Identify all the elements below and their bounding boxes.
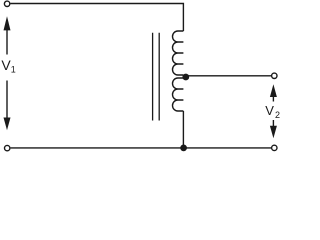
svg-text:1: 1 xyxy=(11,65,16,75)
arrow V1 up xyxy=(4,16,11,30)
junction bottom dot xyxy=(180,145,187,152)
wire bottom rail xyxy=(11,147,271,149)
terminal top-right xyxy=(272,73,277,78)
wire top: input top rail xyxy=(10,4,183,32)
terminal bottom-right xyxy=(272,145,277,150)
winding upper section xyxy=(172,31,183,75)
wire tap to output xyxy=(184,75,271,77)
wire tap stub xyxy=(182,75,184,78)
winding lower section xyxy=(172,78,183,111)
svg-text:V: V xyxy=(265,103,274,118)
junction tap dot xyxy=(182,74,189,81)
transformer core T1 (laminations) xyxy=(153,33,160,121)
wire coil bottom to rail xyxy=(182,111,184,148)
arrow V1 down xyxy=(6,81,8,120)
terminal bottom-left xyxy=(5,145,10,150)
svg-text:2: 2 xyxy=(275,110,280,120)
arrow V2 up xyxy=(270,84,277,97)
arrow V2 down xyxy=(272,120,274,127)
terminal top-left xyxy=(4,1,9,6)
